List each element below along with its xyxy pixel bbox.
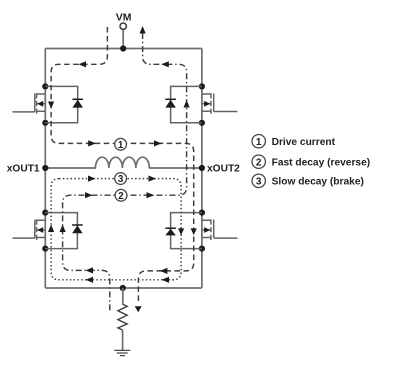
path 1 arrow down through Q1 — [48, 102, 54, 109]
svg-text:3: 3 — [118, 174, 124, 185]
wire bridge outer rectangle — [45, 49, 202, 289]
node Q4 drain — [199, 210, 205, 216]
path 1 arrow down through Q4 — [191, 228, 197, 235]
path 3 arrow right on top run left — [88, 176, 96, 182]
current path 3 slow decay dotted loop — [51, 179, 181, 280]
node Q1 drain — [42, 83, 48, 89]
node Q2 source — [199, 120, 205, 126]
transistor Q3 low-side left — [13, 219, 46, 240]
svg-text:2: 2 — [118, 191, 124, 202]
legend circled 2 — [252, 155, 265, 168]
transistor Q4 low-side right — [202, 219, 238, 240]
diode D4 body diode — [165, 213, 202, 249]
svg-text:VM: VM — [116, 12, 132, 24]
node xOUT2 — [199, 165, 205, 171]
svg-text:3: 3 — [256, 177, 262, 188]
svg-text:1: 1 — [118, 140, 124, 151]
svg-text:xOUT2: xOUT2 — [207, 164, 240, 175]
wire resistor to ground — [122, 330, 124, 350]
path 3 arrow up through Q3 — [48, 225, 54, 233]
path 3 arrow left on bottom run left — [86, 277, 94, 283]
path 1 arrow end at resistor — [135, 306, 142, 312]
node Q2 drain — [199, 83, 205, 89]
resistor sense — [118, 304, 127, 330]
wire xOUT1-xOUT2 line — [45, 167, 202, 169]
transistor Q1 high-side left — [13, 93, 46, 114]
diode D1 body diode — [45, 86, 83, 122]
svg-text:2: 2 — [256, 157, 262, 168]
node VM junction — [120, 45, 126, 51]
circled 3 on slow decay path — [115, 173, 127, 186]
node sense junction — [120, 285, 126, 291]
svg-text:Slow decay (brake): Slow decay (brake) — [272, 177, 364, 188]
node Q1 source — [42, 120, 48, 126]
path 2 arrow right on middle run left — [85, 192, 93, 198]
path 2 arrow up to VM — [140, 26, 146, 34]
path 2 arrow right on middle run right — [147, 192, 155, 198]
circled 2 on fast decay path — [115, 189, 127, 201]
current path 2 fast decay dash-dot line — [63, 33, 187, 313]
diode D2 body diode — [165, 86, 202, 122]
path 3 arrow down through Q4 — [178, 228, 184, 235]
node Q4 source — [199, 246, 205, 252]
legend circled 1 — [252, 135, 265, 148]
transistor Q2 high-side right — [202, 93, 238, 114]
svg-text:Drive current: Drive current — [272, 137, 336, 148]
path 3 arrow left on bottom run right — [162, 277, 170, 283]
current path 1 drive current dashed line — [51, 27, 194, 304]
path 1 arrow right on middle run left — [88, 140, 96, 146]
node Q3 drain — [42, 210, 48, 216]
diode D3 body diode — [45, 213, 82, 249]
path 1 arrow right on middle run right — [154, 140, 162, 146]
circled 1 on drive current path — [115, 138, 127, 150]
svg-text:1: 1 — [256, 137, 262, 148]
path 2 arrow up through Q3 — [60, 225, 66, 233]
path 1 arrow left on bottom run — [160, 268, 168, 274]
wire to sense resistor — [122, 288, 124, 304]
ground — [114, 350, 130, 355]
inductor motor winding — [95, 157, 149, 168]
path 1 arrow left on top run — [79, 61, 87, 67]
path 2 arrow up through Q2 — [184, 100, 190, 108]
path 2 arrow left on top run — [161, 61, 169, 67]
path 3 arrow right on top run right — [149, 176, 157, 182]
node xOUT1 — [42, 165, 48, 171]
svg-text:Fast decay (reverse): Fast decay (reverse) — [272, 157, 371, 168]
node Q3 source — [42, 246, 48, 252]
VM terminal — [120, 23, 126, 49]
path 2 arrow left on bottom run — [86, 267, 94, 273]
legend circled 3 — [252, 174, 265, 187]
svg-text:xOUT1: xOUT1 — [7, 164, 40, 175]
